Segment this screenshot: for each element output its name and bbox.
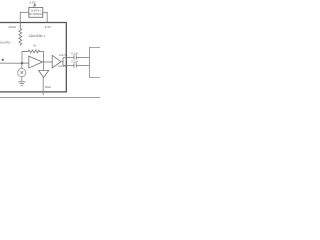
bottom separator line (0, 97, 100, 99)
svg-text:VOUT: VOUT (59, 54, 67, 57)
wire: photodiode to node (21, 63, 23, 68)
svg-text:10GΩ: 10GΩ (8, 25, 16, 29)
wire: top output to cap (63, 57, 74, 59)
text fragment dot at left edge (2, 59, 4, 61)
guard buffer U1b (52, 55, 61, 68)
wire: filter output left to guard (20, 12, 29, 22)
svg-text:RF: RF (33, 44, 37, 48)
photodiode junction mark (20, 72, 23, 74)
ADC box (89, 47, 100, 77)
wire: input node horizontal (0, 62, 29, 64)
svg-text:FILTERING: FILTERING (29, 13, 43, 16)
supply filtering box U2 (29, 8, 43, 18)
resistor RF horizontal feedback (22, 50, 44, 53)
wire: cap C1 to ADC (76, 57, 89, 59)
ground stem through shield (42, 77, 44, 95)
wire: buffer tip split (61, 58, 63, 66)
wire: cap C2 to ADC (76, 65, 89, 67)
wire: filter right to guard top (43, 12, 47, 22)
guard box shield (0, 23, 66, 92)
wire: op-amp output (42, 61, 52, 63)
wire: photodiode to ground (21, 77, 23, 82)
svg-text:3.3V: 3.3V (29, 0, 36, 4)
node junction dot (21, 62, 23, 64)
capacitor C2 (74, 63, 76, 67)
svg-text:0.1µF: 0.1µF (71, 52, 78, 56)
wire: bottom output to cap (63, 65, 74, 67)
ground bars (18, 82, 25, 86)
wire: feedback top left (22, 50, 27, 52)
supply arrow (33, 3, 36, 8)
svg-text:GND: GND (45, 85, 51, 89)
wire: feedback down to output (43, 51, 45, 70)
svg-text:0.1µF: 0.1µF (71, 60, 78, 64)
svg-text:SUPPLY: SUPPLY (31, 10, 42, 13)
resistor R1 vertical (19, 23, 22, 46)
op-amp U1 (29, 56, 43, 68)
photodiode D1 (18, 69, 26, 77)
svg-text:GUARD: GUARD (0, 40, 10, 44)
capacitor C1 (74, 55, 76, 59)
ground triangle (39, 71, 49, 78)
svg-text:ADA4530-1: ADA4530-1 (29, 34, 46, 38)
wire: feedback vertical from node (21, 51, 23, 63)
svg-text:3.3V: 3.3V (45, 25, 51, 29)
